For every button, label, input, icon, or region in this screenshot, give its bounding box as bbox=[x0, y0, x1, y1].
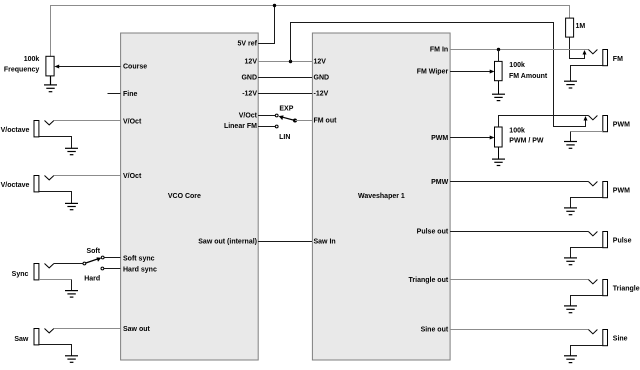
svg-text:PWM: PWM bbox=[613, 122, 630, 129]
wire 5V ref from U1 bbox=[258, 6, 275, 44]
svg-text:V/Oct: V/Oct bbox=[123, 118, 142, 125]
svg-text:V/octave: V/octave bbox=[1, 127, 30, 134]
svg-text:FM Amount: FM Amount bbox=[509, 73, 548, 80]
wire Triangle out from U2 bbox=[450, 279, 588, 281]
svg-text:Course: Course bbox=[123, 64, 147, 71]
svg-text:-12V: -12V bbox=[242, 91, 257, 98]
wire FM In from U2 bbox=[450, 49, 588, 51]
svg-text:Pulse: Pulse bbox=[613, 237, 632, 244]
ground J2 bbox=[65, 203, 78, 209]
svg-text:V/Oct: V/Oct bbox=[239, 113, 258, 120]
wire 1M to FM jack normal bbox=[570, 37, 585, 58]
svg-text:-12V: -12V bbox=[314, 91, 329, 98]
wire 5V ref rail (pot top to 1M top) bbox=[51, 6, 570, 57]
resistor R2 1M bbox=[566, 18, 586, 37]
svg-text:Sync: Sync bbox=[12, 271, 29, 278]
svg-text:GND: GND bbox=[314, 74, 330, 81]
wire FM out to switch common bbox=[295, 120, 312, 122]
svg-text:Sine: Sine bbox=[613, 335, 628, 342]
svg-text:PWM / PW: PWM / PW bbox=[509, 138, 544, 145]
wire Sine out from U2 bbox=[450, 329, 588, 331]
svg-text:12V: 12V bbox=[314, 59, 327, 66]
svg-text:FM out: FM out bbox=[314, 118, 338, 125]
wire Pulse out from U2 bbox=[450, 231, 588, 233]
wire J5 sleeve bbox=[571, 66, 603, 82]
svg-text:5V ref: 5V ref bbox=[238, 41, 258, 48]
svg-text:Soft: Soft bbox=[86, 248, 100, 255]
label 100k FM Amount bbox=[509, 62, 548, 80]
svg-text:FM: FM bbox=[613, 56, 623, 63]
wire PMW from U2 bbox=[450, 181, 588, 183]
wire J2 sleeve bbox=[39, 192, 72, 204]
wire Course wiper arrow bbox=[54, 65, 120, 69]
wire J7 sleeve bbox=[571, 198, 603, 208]
svg-text:VCO Core: VCO Core bbox=[168, 193, 201, 200]
label 100k Frequency bbox=[4, 56, 40, 73]
svg-text:1M: 1M bbox=[576, 23, 586, 30]
svg-text:100k: 100k bbox=[509, 128, 525, 135]
wire J3 tip to switch common bbox=[54, 263, 83, 265]
wire 12V rail to PWM jack normal bbox=[291, 23, 586, 127]
wire J2 tip to V/Oct bbox=[54, 175, 121, 177]
ground J10 bbox=[564, 356, 577, 363]
block U1 VCO Core bbox=[121, 33, 259, 360]
potentiometer R1 100k Frequency body bbox=[46, 56, 54, 76]
junction node FM In bbox=[497, 48, 500, 51]
ground J6 bbox=[564, 142, 577, 149]
jack J5 FM bbox=[588, 50, 607, 66]
svg-text:V/octave: V/octave bbox=[1, 182, 30, 189]
potentiometer R4 100k PWM/PW bbox=[495, 127, 503, 147]
jack J10 Sine bbox=[588, 330, 607, 346]
wire J1 tip to V/Oct bbox=[54, 120, 121, 122]
wire FM Wiper arrow bbox=[450, 70, 495, 74]
svg-text:EXP: EXP bbox=[279, 105, 293, 112]
svg-text:Saw out: Saw out bbox=[123, 326, 151, 333]
wire hard contact to U1 bbox=[104, 268, 121, 270]
jack J1 V/octave bbox=[34, 121, 54, 137]
svg-text:PMW: PMW bbox=[431, 179, 449, 186]
jack J8 Pulse bbox=[588, 232, 607, 248]
svg-text:Saw In: Saw In bbox=[314, 239, 336, 246]
wire J8 sleeve bbox=[571, 248, 603, 258]
jack J4 Saw bbox=[34, 329, 54, 345]
jack J9 Triangle bbox=[588, 280, 607, 296]
svg-text:100k: 100k bbox=[509, 62, 525, 69]
svg-text:Waveshaper 1: Waveshaper 1 bbox=[358, 193, 405, 200]
wire J1 sleeve bbox=[39, 137, 72, 149]
wire J4 sleeve bbox=[39, 345, 72, 356]
svg-text:LIN: LIN bbox=[279, 134, 290, 141]
switch SW1 sync select bbox=[83, 256, 104, 270]
potentiometer R3 100k FM Amount bbox=[495, 50, 503, 81]
ground J1 bbox=[65, 148, 78, 154]
svg-text:Linear FM: Linear FM bbox=[224, 123, 257, 130]
svg-text:Fine: Fine bbox=[123, 91, 137, 98]
junction node 12V bbox=[289, 60, 292, 63]
ground J9 bbox=[564, 306, 577, 313]
jack J6 PWM bbox=[588, 116, 607, 132]
svg-text:Hard: Hard bbox=[84, 276, 100, 283]
wire J9 sleeve bbox=[571, 296, 603, 306]
wire Fine stub bbox=[108, 93, 121, 95]
wire 12V U1 to U2 bbox=[258, 61, 312, 63]
wire soft contact to U1 bbox=[104, 257, 120, 259]
switch SW2 EXP/LIN select bbox=[258, 114, 297, 128]
svg-text:PWM: PWM bbox=[431, 135, 448, 142]
wire J4 tip to Saw out bbox=[54, 328, 121, 330]
jack J7 PWM bbox=[588, 182, 607, 198]
ground J3 bbox=[65, 291, 78, 298]
svg-text:Hard sync: Hard sync bbox=[123, 266, 157, 273]
svg-text:Soft sync: Soft sync bbox=[123, 255, 155, 262]
wire PWM wiper arrow bbox=[450, 136, 495, 140]
label 100k PWM/PW bbox=[509, 128, 544, 145]
svg-text:Triangle out: Triangle out bbox=[409, 277, 449, 284]
svg-text:FM In: FM In bbox=[430, 47, 448, 54]
svg-text:Triangle: Triangle bbox=[613, 286, 640, 293]
svg-text:100k: 100k bbox=[24, 56, 40, 63]
svg-text:Pulse out: Pulse out bbox=[417, 229, 449, 236]
svg-text:PWM: PWM bbox=[613, 188, 630, 195]
ground J8 bbox=[564, 258, 577, 265]
wire J10 sleeve bbox=[571, 346, 603, 356]
ground pot R3 bbox=[492, 81, 505, 101]
jack J2 V/octave bbox=[34, 176, 54, 192]
svg-text:Saw: Saw bbox=[14, 336, 29, 343]
block U2 Waveshaper 1 bbox=[312, 33, 450, 360]
wire Saw out internal U1 to U2 bbox=[258, 241, 312, 243]
svg-text:FM Wiper: FM Wiper bbox=[417, 69, 449, 76]
svg-text:Frequency: Frequency bbox=[4, 67, 40, 74]
wire R4 top to PWM jack tip bbox=[499, 116, 589, 128]
ground J5 bbox=[564, 81, 577, 88]
svg-text:Sine out: Sine out bbox=[421, 327, 449, 334]
wire -12V U1 to U2 bbox=[258, 93, 312, 95]
wire J3 sleeve bbox=[39, 279, 72, 281]
wire GND U1 to U2 bbox=[258, 77, 312, 79]
wire J6 sleeve bbox=[571, 131, 603, 133]
svg-text:V/Oct: V/Oct bbox=[123, 173, 142, 180]
ground pot R1 bbox=[44, 76, 57, 92]
ground pot R4 bbox=[492, 147, 505, 166]
ground J4 bbox=[65, 356, 78, 363]
svg-text:12V: 12V bbox=[245, 59, 258, 66]
junction node 5V ref bbox=[273, 4, 276, 7]
jack J3 Sync bbox=[34, 264, 54, 280]
svg-text:Saw out (internal): Saw out (internal) bbox=[198, 239, 257, 246]
ground J7 bbox=[564, 208, 577, 215]
svg-text:GND: GND bbox=[241, 74, 257, 81]
